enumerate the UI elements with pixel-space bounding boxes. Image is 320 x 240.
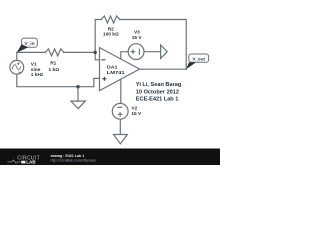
flag V_out pointer bbox=[186, 62, 196, 69]
svg-text:Yi Li, Sean Barag: Yi Li, Sean Barag bbox=[136, 82, 182, 88]
wire R1 to node B bbox=[64, 51, 95, 53]
svg-text:V3: V3 bbox=[134, 29, 140, 35]
svg-text:15 V: 15 V bbox=[132, 35, 143, 41]
svg-text:R1: R1 bbox=[50, 61, 56, 67]
flag V_in box bbox=[17, 38, 38, 53]
svg-text:V1: V1 bbox=[31, 61, 37, 67]
svg-text:LAB: LAB bbox=[26, 160, 36, 165]
svg-text:sine: sine bbox=[31, 67, 41, 73]
svg-text:1 kΩ: 1 kΩ bbox=[49, 67, 60, 73]
voltage source V2 bbox=[112, 103, 128, 119]
logo waveform bbox=[8, 160, 21, 163]
V2 plus mark bbox=[118, 112, 123, 117]
voltage source V3 bbox=[128, 44, 144, 60]
svg-text:V_out: V_out bbox=[192, 56, 205, 61]
V1 minus mark bbox=[18, 71, 21, 73]
svg-text:10 October 2012: 10 October 2012 bbox=[136, 89, 179, 95]
V1 plus mark bbox=[17, 62, 21, 72]
junction node B dot bbox=[94, 51, 97, 54]
wire op-amp output bbox=[140, 68, 187, 70]
svg-text:http://circuitlab.com/c/6pswyx: http://circuitlab.com/c/6pswyx bbox=[51, 158, 97, 162]
svg-text:100 kΩ: 100 kΩ bbox=[103, 32, 119, 38]
svg-text:LM741: LM741 bbox=[107, 70, 125, 76]
ground G1 bbox=[71, 101, 85, 109]
labels bbox=[31, 26, 143, 117]
svg-text:ECE-E421 Lab 1: ECE-E421 Lab 1 bbox=[136, 97, 179, 103]
svg-text:R2: R2 bbox=[108, 26, 114, 32]
ground G3 sideways bbox=[161, 45, 168, 58]
svg-text:15 V: 15 V bbox=[131, 111, 142, 117]
resistor R1 bbox=[45, 49, 64, 56]
junction ground node dot bbox=[76, 85, 79, 88]
flag V_in pointer bbox=[17, 44, 29, 52]
svg-text:OA1: OA1 bbox=[107, 64, 118, 70]
wire V3 to ground G3 bbox=[144, 51, 161, 53]
wire R2 riser from node B bbox=[95, 20, 101, 53]
wire V1 bottom to ground run bbox=[17, 74, 94, 87]
ground G2 bbox=[114, 135, 128, 144]
op-amp plus input mark bbox=[102, 77, 106, 81]
V1 symbol interior sine bbox=[12, 65, 21, 70]
op-amp minus input mark bbox=[101, 60, 106, 81]
wire V1 top bbox=[16, 52, 18, 60]
svg-text:V_in: V_in bbox=[24, 41, 34, 47]
svg-text:1 kHz: 1 kHz bbox=[31, 72, 44, 78]
ground G1 stub bbox=[77, 87, 79, 101]
logo LAB block bbox=[21, 161, 25, 164]
wire V2 bottom bbox=[119, 119, 121, 134]
footer banner bbox=[0, 149, 220, 166]
V2 minus mark bbox=[117, 107, 122, 116]
V3 plus mark bbox=[131, 49, 140, 55]
wire R2 to output corner bbox=[120, 20, 186, 70]
svg-text:V2: V2 bbox=[131, 106, 137, 112]
wire op-amp bottom power stub to V2 bbox=[120, 79, 122, 103]
op-amp U1 triangle bbox=[100, 48, 140, 91]
wire V_in node to R1 bbox=[17, 51, 45, 53]
voltage source V1 bbox=[10, 60, 24, 74]
flag V_out box bbox=[186, 54, 209, 69]
resistor R2 bbox=[101, 16, 120, 23]
V3 minus bar bbox=[138, 49, 140, 55]
wire jog to op-amp non-inverting input bbox=[94, 78, 100, 86]
wire op-amp top power stub to V3 bbox=[121, 52, 128, 59]
wire node B jog to op-amp inverting input bbox=[95, 52, 99, 59]
